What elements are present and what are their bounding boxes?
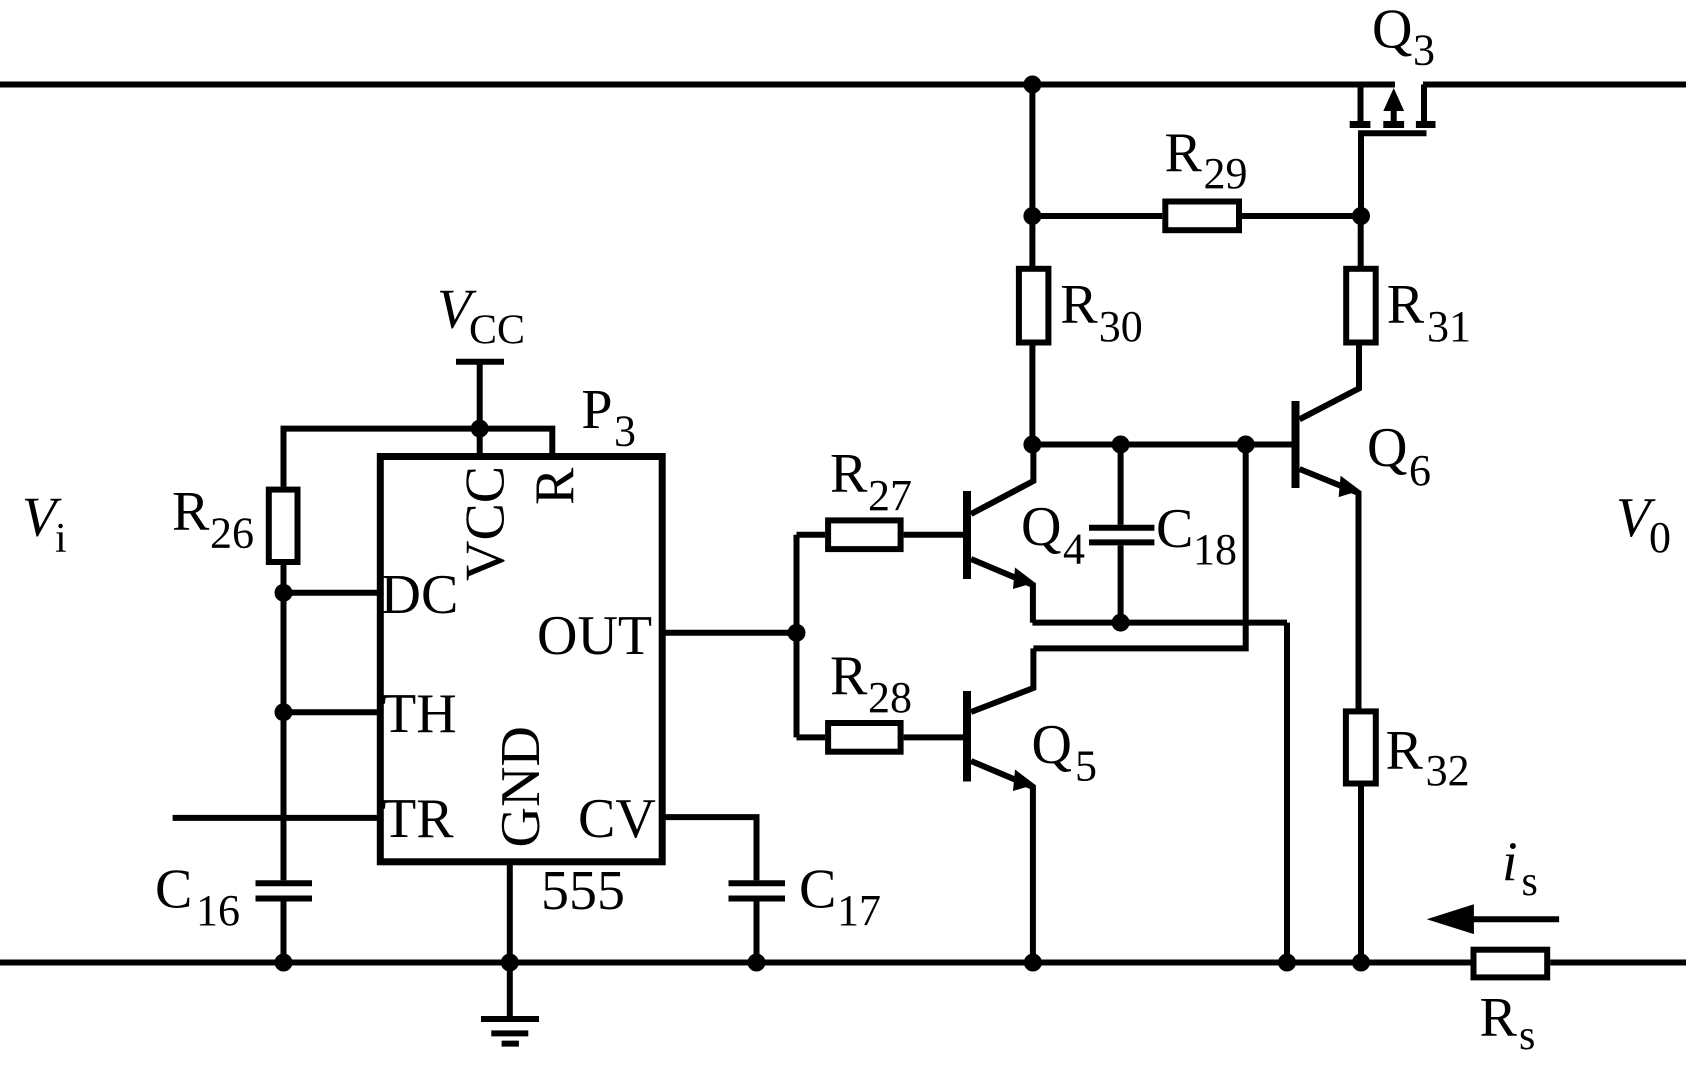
svg-text:28: 28 [868,673,912,722]
wire Vcc jog [284,429,553,487]
label P3 [581,379,636,456]
svg-text:C: C [1156,498,1193,560]
wire TR pin stub [173,815,381,821]
wire R30 bottom [1029,346,1035,445]
svg-text:CV: CV [578,788,656,850]
ground symbol [481,1019,539,1044]
label R29 [1165,122,1248,198]
wire R29 left [1032,213,1162,219]
svg-text:R: R [1480,986,1518,1048]
junction dot C17 ground [748,954,766,972]
wire OUT branch vertical [794,535,800,738]
resistor R30 [1019,269,1049,343]
label C16 [155,859,240,936]
junction dot OUT node [788,624,806,642]
wire R26 bottom to C16 [281,565,287,880]
svg-text:TH: TH [382,683,457,745]
junction dot emitter row ground [1278,954,1296,972]
resistor R28 [828,723,901,752]
label Q3 [1372,0,1435,75]
resistor R31 [1346,269,1376,343]
svg-text:VCC: VCC [455,466,517,581]
label Q4 [1021,496,1085,574]
svg-text:R: R [830,645,868,707]
junction dot Vcc node [471,420,489,438]
junction dot Q5 collector feedback node [1237,436,1255,454]
junction dot R30 bottom node [1023,436,1041,454]
svg-text:R: R [1060,273,1098,335]
label Vo [1616,487,1671,562]
svg-text:C: C [799,859,836,921]
wire TH pin [284,709,381,715]
wire bottom rail right segment [1550,960,1686,966]
capacitor C17 [729,883,786,962]
arrow Q6 emitter [1339,476,1361,497]
svg-text:s: s [1519,1013,1535,1059]
wire Q5 collector feedback [1033,445,1245,649]
wire GND pin [507,862,513,1017]
svg-text:Q: Q [1021,496,1061,558]
svg-text:27: 27 [868,471,912,520]
resistor Rs [1474,950,1548,978]
svg-text:4: 4 [1063,525,1085,574]
svg-text:OUT: OUT [537,605,652,667]
wire R28 left [797,734,826,740]
label Q5 [1032,714,1098,790]
label is [1502,832,1538,906]
svg-text:32: 32 [1426,746,1470,795]
label R27 [830,443,912,520]
label R31 [1387,273,1471,351]
svg-text:26: 26 [210,508,254,557]
svg-text:CC: CC [469,308,525,354]
svg-text:DC: DC [381,564,459,626]
svg-text:R: R [524,467,586,505]
svg-text:0: 0 [1649,513,1671,562]
svg-text:R: R [1165,122,1203,184]
wire R31 top [1358,216,1364,266]
svg-text:30: 30 [1099,302,1143,351]
svg-text:R: R [1386,720,1424,782]
capacitor C18 [1089,445,1154,623]
junction dot C18 top node [1112,436,1130,454]
wire Q4 emitter row [1032,620,1287,626]
power Vcc symbol [456,362,504,457]
junction dot C16 ground [275,954,293,972]
resistor R32 [1346,711,1376,783]
wire R32 bottom [1358,784,1364,963]
resistor R26 [269,490,298,562]
wire R31 bottom to Q6 collector [1300,346,1360,420]
svg-text:Q: Q [1367,417,1407,479]
svg-text:GND: GND [490,726,552,847]
junction dot Q5 emitter ground [1024,954,1042,972]
svg-text:i: i [55,516,67,562]
arrow Q4 emitter [1013,568,1035,590]
wire CV pin [662,817,756,880]
wire R27 right [904,532,964,538]
junction dot TH node [275,703,293,721]
wire bottom rail left segment [0,960,1471,966]
svg-text:R: R [830,443,868,505]
junction dot GND rail [501,954,519,972]
svg-text:5: 5 [1075,742,1097,791]
label R26 [172,480,254,557]
wire top rail left segment [0,82,1395,88]
label R30 [1060,273,1143,351]
label C18 [1156,498,1237,574]
svg-text:Q: Q [1032,714,1072,776]
label Rs [1480,986,1536,1059]
wire top rail right segment [1423,82,1686,88]
svg-text:s: s [1522,859,1538,905]
wire R27 left [797,532,826,538]
wire emitter row to bottom rail [1284,623,1290,963]
transistor Q5 [967,648,1033,962]
label R28 [830,645,912,722]
svg-text:i: i [1502,832,1518,894]
arrow current is [1427,904,1559,934]
svg-text:Q: Q [1372,0,1412,61]
svg-text:16: 16 [196,886,240,935]
555 timer U1 box [380,457,662,862]
svg-text:31: 31 [1427,302,1471,351]
svg-text:18: 18 [1193,525,1237,574]
svg-text:6: 6 [1409,446,1431,495]
resistor R27 [828,520,901,549]
junction dot C18 bottom node [1112,614,1130,632]
junction dot DC node [275,584,293,602]
svg-text:3: 3 [614,407,636,456]
junction dot gate node [1352,207,1370,225]
label R32 [1386,720,1470,796]
svg-text:P: P [581,379,612,441]
junction dot top rail tap [1023,76,1041,94]
wire Q3 gate lead [1358,133,1364,216]
label Vi [22,487,67,562]
svg-text:R: R [1387,273,1425,335]
wire R28 right [904,734,964,740]
transistor Q6 [1296,401,1359,712]
svg-text:555: 555 [541,860,625,922]
svg-text:R: R [172,480,210,542]
svg-text:17: 17 [837,886,881,935]
transistor Q3 (P-MOSFET) [1350,85,1436,134]
label Q6 [1367,417,1431,495]
junction dot R29 left node [1023,207,1041,225]
arrow Q5 emitter [1013,770,1035,792]
wire R29 right [1242,213,1361,219]
svg-text:3: 3 [1413,26,1435,75]
svg-text:C: C [155,859,192,921]
wire OUT pin [662,630,796,636]
resistor R29 [1165,202,1239,231]
label Vcc [437,279,525,354]
wire DC pin [284,590,381,596]
transistor Q4 [967,445,1033,623]
label C17 [799,859,881,936]
capacitor C16 [256,883,313,962]
svg-text:TR: TR [382,788,454,850]
svg-text:29: 29 [1204,149,1248,198]
wire top rail to R30 [1029,85,1035,267]
junction dot R32 ground [1352,954,1370,972]
wire base node row [1032,442,1292,448]
